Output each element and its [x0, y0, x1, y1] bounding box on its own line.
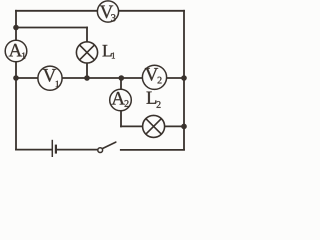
- junction node L1 bottom on middle wire: [84, 75, 90, 81]
- wire bottom left to battery: [16, 149, 52, 151]
- lamp L1: [76, 42, 97, 63]
- label L1: [103, 45, 116, 59]
- battery long plate: [51, 140, 53, 157]
- switch S: [98, 142, 116, 152]
- lamp L2: [143, 115, 165, 137]
- wire A2 branch vertical: [120, 78, 122, 126]
- wire left vertical: [15, 11, 17, 150]
- voltmeter V3: [97, 1, 118, 22]
- junction node at left middle tap: [13, 75, 19, 81]
- voltmeter V2: [142, 65, 166, 89]
- wire L1 branch vertical: [86, 28, 88, 79]
- ammeter A1: [5, 40, 27, 62]
- ammeter A2: [110, 89, 132, 111]
- wire top: [16, 10, 184, 12]
- junction node A2 tap on middle wire: [119, 75, 125, 81]
- switch pivot: [98, 148, 103, 153]
- wire switch to bottom right corner: [121, 149, 184, 151]
- label L2: [147, 92, 161, 108]
- voltmeter V1: [38, 66, 62, 90]
- battery short plate: [55, 145, 57, 154]
- junction node L2 wire at right vertical: [181, 124, 187, 130]
- junction node middle wire at right vertical: [181, 75, 187, 81]
- battery cell: [52, 140, 56, 157]
- junction node at left L1 tap: [13, 25, 19, 31]
- wire L1 branch horizontal: [16, 27, 87, 29]
- wire middle horizontal: [16, 77, 184, 79]
- wire L2 branch horizontal: [121, 125, 184, 127]
- switch lever: [102, 142, 116, 149]
- wire right vertical: [183, 11, 185, 150]
- wire battery to switch: [57, 149, 98, 151]
